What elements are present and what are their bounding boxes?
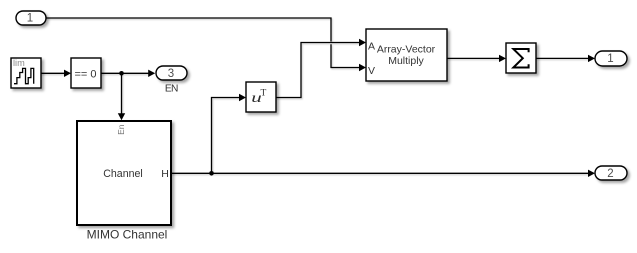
arrowhead into outport 1 — [588, 55, 595, 62]
compare to zero block == 0 — [71, 58, 101, 88]
inport 1 (top left oval) — [16, 11, 46, 25]
arrowhead into u-transpose — [239, 94, 246, 101]
wire: Array-Vector Multiply output to Sum — [447, 57, 500, 59]
wire: ==0 to outport 3 — [101, 72, 149, 74]
svg-text:Multiply: Multiply — [388, 55, 424, 67]
svg-text:1: 1 — [27, 13, 33, 25]
junction dot on EN line — [119, 71, 124, 76]
sigma glyph — [513, 49, 528, 68]
outport 2 oval — [595, 166, 627, 180]
source block lim (repeating sequence stair) — [11, 58, 41, 88]
arrowhead into En port (down) — [118, 113, 125, 120]
svg-text:1: 1 — [607, 53, 613, 65]
wire: Inport 1 to Array-Vector Multiply V input — [46, 18, 360, 68]
svg-text:== 0: == 0 — [74, 68, 96, 80]
svg-text:3: 3 — [168, 68, 174, 80]
svg-text:MIMO Channel: MIMO Channel — [87, 228, 168, 242]
outport 1 oval — [595, 51, 627, 66]
arrowhead into Sum — [499, 55, 506, 62]
svg-text:Array-Vector: Array-Vector — [377, 44, 436, 56]
Sum of Elements block — [506, 43, 536, 73]
svg-text:EN: EN — [165, 84, 178, 95]
wire: junction up to u-transpose input — [212, 98, 240, 174]
transpose block uT — [246, 82, 276, 112]
svg-text:lim: lim — [13, 58, 25, 68]
Array-Vector Multiply block — [366, 29, 447, 81]
svg-text:En: En — [116, 124, 126, 135]
wire: Sum output to outport 1 — [536, 57, 588, 59]
svg-text:2: 2 — [607, 168, 613, 180]
wire: junction down to MIMO Channel En port — [121, 73, 123, 113]
arrowhead into ==0 — [64, 70, 71, 77]
junction dot on H line — [209, 171, 214, 176]
arrowhead into A port — [359, 39, 366, 46]
svg-text:Channel: Channel — [103, 168, 142, 180]
wire: lim block to ==0 block — [41, 72, 65, 74]
arrowhead into V port — [359, 64, 366, 71]
svg-text:T: T — [261, 89, 267, 99]
arrowhead into outport 2 — [588, 170, 595, 177]
wire: u-transpose output to Array-Vector Multiply A input — [276, 43, 360, 98]
arrowhead into outport 3 — [148, 70, 155, 77]
svg-text:H: H — [161, 168, 169, 180]
outport 3 oval — [156, 66, 187, 80]
svg-text:V: V — [368, 65, 375, 77]
svg-text:A: A — [368, 40, 375, 52]
MIMO Channel block — [77, 121, 171, 225]
wire: MIMO H output to outport 2 — [171, 172, 588, 174]
stair waveform icon — [14, 68, 34, 83]
